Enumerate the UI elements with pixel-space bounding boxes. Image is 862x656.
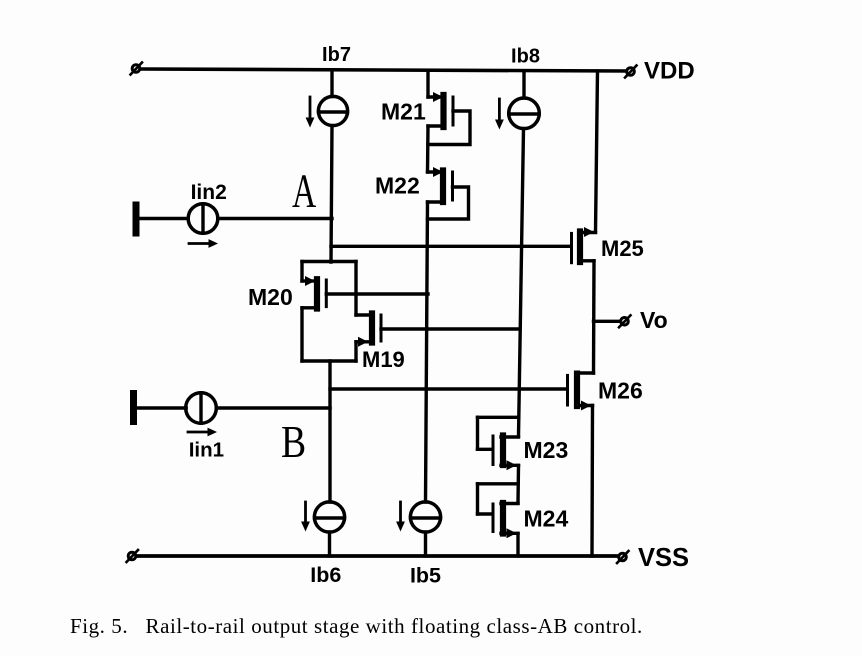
VSS rail right terminal <box>617 551 629 563</box>
input current source Iin2 <box>188 204 218 234</box>
transistor M24 <box>478 484 519 539</box>
VDD rail <box>142 69 626 71</box>
wire: M23 source to M24 drain <box>516 466 520 504</box>
transistor M25 <box>572 227 596 263</box>
arrow at Ib8 <box>495 99 504 130</box>
VDD rail right terminal <box>625 66 637 78</box>
wire: node B column down to Ib6 <box>328 361 331 502</box>
svg-text:Ib6: Ib6 <box>310 563 341 587</box>
transistor M22 <box>428 167 469 219</box>
svg-text:Iin1: Iin1 <box>189 439 224 462</box>
svg-text:Ib8: Ib8 <box>511 46 540 68</box>
svg-text:Iin2: Iin2 <box>191 181 227 204</box>
wire: Iin2 terminal to source <box>140 217 189 220</box>
svg-text:M23: M23 <box>524 437 569 463</box>
current source Ib5 <box>410 502 440 532</box>
wire: Ib8 down to M23 drain <box>519 129 524 437</box>
arrow at Iin1 <box>188 428 217 437</box>
wire: Ib6 to VSS <box>328 532 331 556</box>
wire: M26 source to VSS <box>590 406 594 557</box>
svg-text:M19: M19 <box>362 347 405 372</box>
transistor M20 <box>302 262 326 362</box>
svg-text:B: B <box>281 418 306 468</box>
svg-text:Ib7: Ib7 <box>322 44 351 66</box>
wire: Iin1 to node B <box>216 406 330 409</box>
wire: VDD to M25 drain <box>596 71 598 232</box>
arrow at Ib5 <box>396 502 405 532</box>
svg-text:Fig. 5. Rail-to-rail output: Fig. 5. Rail-to-rail output stage with f… <box>70 614 643 638</box>
wire: Vo branch <box>594 320 620 323</box>
svg-text:M25: M25 <box>601 236 644 261</box>
wire: Ib7 to node A <box>331 126 332 262</box>
input source Iin1 terminal bar <box>130 394 137 422</box>
VDD rail left terminal <box>131 63 143 75</box>
arrow at Ib6 <box>301 502 310 532</box>
wire: M21 source to M22 drain <box>426 126 430 172</box>
wire: VDD to M21 drain <box>426 71 429 97</box>
arrow at Ib7 <box>306 97 315 128</box>
wire: node A to M25 gate <box>331 245 570 248</box>
Vo terminal <box>619 315 631 327</box>
wire: M19 gate to M23 column <box>381 327 519 330</box>
wire: Iin2 to node A <box>218 217 332 220</box>
current source Ib8 <box>509 98 540 129</box>
floating block bottom wire <box>302 359 356 362</box>
wire: node B to M26 gate <box>330 387 566 390</box>
wire: Iin1 terminal to source <box>137 406 186 409</box>
svg-text:M26: M26 <box>598 378 643 404</box>
input current source Iin1 <box>186 393 217 424</box>
transistor M23 <box>478 417 519 470</box>
wire: M20 gate to Ib5 column <box>326 292 428 295</box>
svg-text:M21: M21 <box>381 99 426 125</box>
VSS rail <box>138 554 616 558</box>
svg-text:Ib5: Ib5 <box>410 564 441 588</box>
svg-text:Vo: Vo <box>640 307 668 333</box>
transistor M26 <box>568 373 594 411</box>
svg-text:A: A <box>292 164 316 217</box>
floating block M20/M19 top wire <box>302 260 356 263</box>
input source Iin2 terminal bar <box>133 205 140 233</box>
svg-text:M20: M20 <box>248 284 293 310</box>
wire: VDD to Ib7 <box>330 71 333 97</box>
wire: VDD to Ib8 <box>522 71 525 98</box>
wire: M24 source to VSS <box>516 534 519 557</box>
svg-text:M22: M22 <box>375 173 420 199</box>
transistor M21 <box>428 92 470 145</box>
svg-text:M24: M24 <box>524 506 569 532</box>
VSS rail left terminal <box>127 550 139 562</box>
current source Ib6 <box>314 502 344 532</box>
svg-text:VSS: VSS <box>638 544 689 572</box>
transistor M19 <box>356 262 381 362</box>
svg-text:VDD: VDD <box>644 58 695 85</box>
wire: Ib5 to VSS <box>424 532 427 556</box>
arrow at Iin2 <box>189 239 218 248</box>
wire: M25 source to Vo and M26 drain <box>592 261 596 373</box>
current source Ib7 <box>318 96 347 125</box>
wire: M22 source down to Ib5 <box>426 202 428 502</box>
